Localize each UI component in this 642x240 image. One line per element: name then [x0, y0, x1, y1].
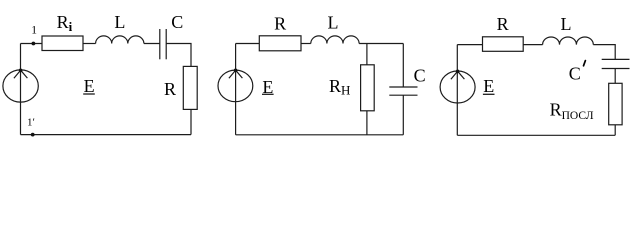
EMF source E2 arrow apex dot: [234, 69, 238, 73]
svg-text:L: L: [114, 12, 125, 32]
resistor R (circuit 1 load): [183, 66, 197, 109]
wire: Ri to inductor L: [83, 43, 96, 45]
EMF source E1 arrow apex dot: [19, 69, 23, 73]
capacitor C (circuit 1) right plate: [165, 29, 167, 59]
wire: L to capacitor C: [144, 43, 160, 45]
wire: circuit 3 left vertical (through source): [456, 45, 458, 136]
wire: right branch down to capacitor C: [402, 44, 404, 88]
wire: Rposl bottom to bottom-right corner: [614, 125, 616, 136]
svg-text:C: C: [171, 12, 183, 32]
wire: C to top-right corner and down to resistor R: [166, 44, 191, 67]
svg-text:RПОСЛ: RПОСЛ: [550, 100, 594, 122]
EMF source E2 arrowhead: [229, 70, 243, 78]
EMF source E3 arrowhead: [451, 71, 465, 79]
wire: C bottom plate to bottom-right corner: [402, 95, 404, 135]
wire: Rn bottom to bottom wire: [366, 111, 368, 135]
resistor R (circuit 2): [259, 36, 301, 51]
resistor Ri: [42, 36, 83, 51]
underline of E (circuit 3): [483, 93, 495, 95]
svg-text:1′: 1′: [27, 117, 35, 129]
wire: circuit 1 bottom segment: [21, 134, 192, 136]
svg-text:R: R: [497, 14, 509, 34]
svg-text:E: E: [84, 76, 95, 96]
wire: R bottom to bottom-right corner: [190, 109, 192, 134]
svg-text:L: L: [561, 14, 572, 34]
svg-text:R: R: [274, 13, 286, 33]
capacitor C (circuit 2) bottom plate: [389, 94, 417, 96]
resistor R (circuit 3): [483, 37, 524, 52]
inductor L (circuit 1): [96, 36, 144, 44]
svg-text:RН: RН: [329, 76, 350, 98]
wire: R to inductor L: [301, 43, 311, 45]
EMF source E3 ellipse: [440, 71, 475, 103]
capacitor C (circuit 1) left plate: [159, 29, 161, 59]
capacitor C' bottom plate: [602, 68, 630, 70]
inductor L (circuit 2): [311, 36, 359, 44]
svg-text:Ri: Ri: [57, 12, 73, 34]
wire: circuit 1 top segment, node 1 to resistor Ri: [21, 43, 43, 45]
svg-text:C: C: [569, 63, 581, 83]
EMF source E1 arrowhead: [14, 70, 28, 78]
svg-text:R: R: [164, 79, 176, 99]
wire: circuit 2 top-left to resistor R: [236, 43, 260, 45]
EMF source E3 arrow apex dot: [456, 70, 460, 74]
inductor L (circuit 3): [543, 37, 594, 45]
capacitor C (circuit 2) top plate: [389, 86, 417, 88]
underline of E (circuit 2): [262, 93, 274, 95]
wire: Rn branch from top wire junction: [366, 44, 368, 65]
wire: L to top-right corner, down to capacitor C': [593, 45, 615, 60]
wire: C' to resistor Rposl: [614, 69, 616, 84]
svg-text:L: L: [328, 13, 339, 33]
svg-text:C: C: [414, 66, 426, 86]
underline of E (circuit 1): [83, 93, 95, 95]
wire: circuit 3 bottom segment: [457, 134, 615, 136]
EMF source E1 ellipse: [3, 70, 38, 102]
EMF source E2 ellipse: [218, 70, 253, 102]
svg-text:1: 1: [31, 25, 37, 37]
node 1' junction dot: [31, 133, 35, 137]
label C' (circuit 3): [584, 61, 586, 66]
node 1 junction dot: [32, 42, 36, 46]
resistor Rposl (series): [609, 83, 622, 125]
wire: circuit 1 left vertical (through source): [20, 44, 22, 135]
svg-text:E: E: [483, 76, 494, 96]
wire: R to inductor L: [523, 44, 542, 46]
wire: L to top-right corner: [359, 43, 403, 45]
wire: circuit 2 left vertical (through source): [235, 44, 237, 135]
capacitor C' top plate: [602, 58, 630, 60]
wire: circuit 3 top-left to resistor R: [457, 44, 482, 46]
resistor Rn (load): [361, 65, 375, 111]
wire: circuit 2 bottom segment: [236, 134, 404, 136]
